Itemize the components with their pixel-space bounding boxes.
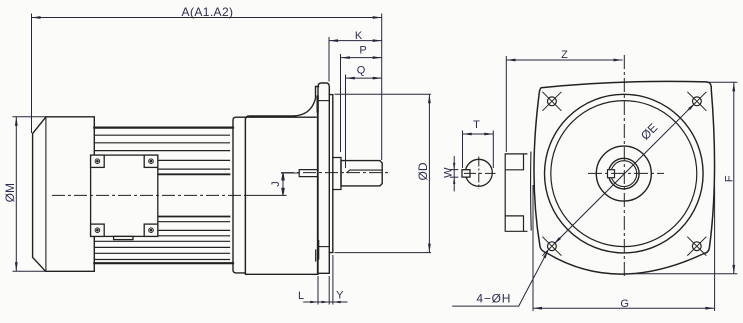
screw bottom-right [149, 228, 154, 233]
terminal plate bottom tab [114, 236, 133, 239]
bolt hole bottom-right [692, 242, 701, 251]
dimension F bottom extension [632, 273, 737, 275]
screw bottom-left [95, 228, 100, 233]
horizontal centerline [464, 172, 496, 174]
dimension M vertical line [15, 117, 17, 271]
flange outer circle [545, 94, 704, 253]
motor fin lines beside plate upper [158, 160, 230, 169]
dimension P line [341, 57, 382, 59]
side view dimension labels [3, 5, 430, 302]
motor fin thick line upper [158, 173, 230, 175]
dimension W line [453, 156, 455, 191]
bell bottom left vertical [315, 250, 317, 261]
W extension bottom [450, 176, 458, 178]
bell edge thick bar top [317, 97, 319, 112]
rear output shaft stub [299, 170, 317, 177]
L Y arrows [310, 301, 340, 303]
svg-text:A(A1.A2): A(A1.A2) [182, 5, 234, 19]
detail vertical centerline [478, 157, 480, 190]
screw top-left [95, 159, 100, 164]
flange pilot boss front face [329, 95, 333, 253]
svg-text:F: F [723, 175, 735, 182]
boss inner square bottom [505, 216, 523, 231]
shaft keyway line [347, 170, 381, 172]
W arrows [453, 163, 455, 184]
dimension K line [329, 40, 382, 42]
dimension T right extension [492, 131, 494, 169]
shaft end detail circle [462, 159, 492, 186]
dimension Q line [346, 77, 382, 79]
svg-text:Z: Z [561, 49, 568, 61]
dimension M bottom extension [13, 270, 46, 272]
flange ring bottom tick [318, 246, 329, 248]
dimension P extension [340, 54, 342, 152]
shaft keyway (front) [608, 170, 615, 178]
centerlines front view [464, 55, 664, 277]
diagonal bolt-circle dimension ØE [554, 103, 696, 245]
svg-text:Q: Q [357, 64, 366, 76]
svg-text:ØD: ØD [416, 162, 430, 180]
adapter ring between motor and gearbox [233, 117, 316, 273]
screw top-right [149, 159, 154, 164]
dimension D top extension [335, 93, 432, 95]
screw pad top-right [144, 155, 158, 167]
svg-text:L: L [298, 290, 304, 302]
dimension K extension [328, 37, 330, 82]
svg-text:W: W [443, 167, 455, 178]
Y extension (boss face) [332, 255, 334, 305]
svg-text:K: K [355, 30, 363, 42]
dimension J bottom arrow [282, 188, 284, 195]
boss inner square top [505, 154, 523, 170]
motor fin lines upper band [94, 135, 229, 150]
flange square outline [534, 81, 715, 274]
svg-text:J: J [270, 181, 282, 187]
dimension D bottom extension [335, 252, 432, 254]
motor end cap [33, 117, 95, 271]
screw pad bottom-left [91, 224, 105, 236]
dimension L Y line [303, 301, 347, 303]
bell back edge line [316, 98, 318, 273]
bolt hole bottom-left [548, 242, 557, 251]
shaft circle [609, 158, 640, 189]
motor body outline (fin section) [94, 128, 233, 264]
L extension (flange face) [328, 276, 330, 305]
svg-text:G: G [620, 298, 629, 310]
screw pad bottom-right [144, 224, 158, 236]
bell edge thick bar bottom [317, 241, 319, 259]
flange raised face circle [551, 101, 697, 247]
svg-text:T: T [473, 119, 480, 131]
dimension J line [282, 173, 284, 195]
front view dimension labels [443, 49, 736, 310]
hub circle [596, 146, 651, 201]
dimension D vertical line [428, 94, 430, 252]
shaft inner circle [611, 161, 637, 187]
motor end cap crease line [45, 117, 47, 271]
output hub [333, 158, 341, 190]
flange plate with top ear [318, 83, 329, 273]
bolt hole top-left [548, 97, 557, 106]
W extension top [450, 169, 458, 171]
dimension F top extension [706, 81, 737, 83]
svg-text:4−ØH: 4−ØH [476, 292, 511, 306]
bolt holes with crosses [542, 92, 706, 256]
L extension (flange back) [317, 276, 319, 305]
svg-text:Y: Y [336, 290, 344, 302]
dimension G left extension [532, 185, 534, 311]
4-ØH leader [452, 251, 548, 307]
gearbox vertical joint line [244, 117, 246, 274]
dimension A(A1.A2) line [32, 17, 382, 19]
dimension J top arrow [282, 173, 284, 180]
dimension A right extension [381, 14, 383, 161]
screw pad top-left [91, 155, 105, 167]
bolt hole top-right [693, 97, 702, 106]
side boss on flange left edge [505, 154, 527, 231]
dimension M top extension [13, 116, 47, 118]
motor centerline [52, 194, 246, 196]
terminal plate on motor [91, 155, 158, 239]
dimension T line [463, 133, 494, 135]
svg-text:ØM: ØM [3, 183, 17, 202]
vertical centerline [623, 55, 625, 277]
output shaft centerline [281, 172, 390, 174]
dimension T left extension [462, 131, 464, 169]
housing edge behind flange left side [530, 152, 533, 230]
dimension J leader [281, 172, 299, 174]
motor fin thick line lower [158, 216, 230, 218]
output shaft [341, 161, 382, 186]
dimension A left extension [31, 14, 33, 134]
dimension Z line [507, 59, 623, 61]
detail key [462, 170, 470, 177]
dimension Z left extension [505, 56, 507, 152]
dimension Q extension [345, 75, 347, 169]
gearbox housing outline [245, 87, 318, 275]
motor fin lines lower band [94, 241, 229, 259]
flange ring top tick [318, 100, 329, 102]
motor fin lines beside plate lower [158, 222, 230, 236]
dimension F line [733, 82, 735, 274]
dimension G line [533, 307, 714, 309]
svg-text:P: P [359, 45, 366, 57]
dimension G right extension [714, 185, 716, 311]
